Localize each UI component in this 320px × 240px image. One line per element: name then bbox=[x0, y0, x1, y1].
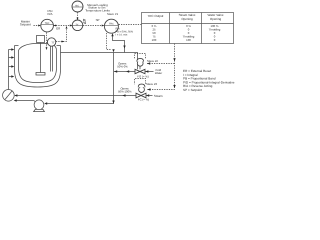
svg-text:100: 100 bbox=[186, 38, 191, 42]
svg-text:I = 0.1 min: I = 0.1 min bbox=[116, 34, 128, 37]
svg-text:Opening: Opening bbox=[181, 17, 193, 21]
svg-text:0: 0 bbox=[214, 38, 216, 42]
svg-text:Setpoint: Setpoint bbox=[20, 23, 31, 27]
svg-text:100: 100 bbox=[152, 38, 157, 42]
svg-text:Slave #1: Slave #1 bbox=[107, 12, 119, 16]
svg-text:HIC: HIC bbox=[75, 5, 79, 8]
svg-text:TY: TY bbox=[76, 23, 79, 26]
svg-text:TRC Output: TRC Output bbox=[147, 14, 163, 18]
svg-text:TT: TT bbox=[51, 41, 55, 45]
svg-text:50%-100%: 50%-100% bbox=[118, 90, 132, 94]
svg-text:SP = Setpoint: SP = Setpoint bbox=[183, 88, 202, 92]
svg-text:Water: Water bbox=[155, 71, 162, 75]
svg-text:FO (= %): FO (= %) bbox=[137, 75, 148, 79]
svg-text:FC (= %): FC (= %) bbox=[138, 97, 149, 101]
svg-text:50%-0%: 50%-0% bbox=[117, 65, 128, 69]
svg-text:Slave #2: Slave #2 bbox=[147, 59, 158, 63]
svg-text:Slave #3: Slave #3 bbox=[146, 82, 157, 86]
svg-text:TRC: TRC bbox=[45, 22, 50, 25]
svg-text:ER: ER bbox=[56, 26, 60, 30]
svg-text:R/A: R/A bbox=[47, 12, 52, 16]
svg-text:TRC: TRC bbox=[109, 23, 114, 26]
svg-text:Steam: Steam bbox=[154, 94, 163, 98]
svg-text:SP: SP bbox=[96, 18, 100, 22]
svg-text:Opening: Opening bbox=[210, 17, 222, 21]
